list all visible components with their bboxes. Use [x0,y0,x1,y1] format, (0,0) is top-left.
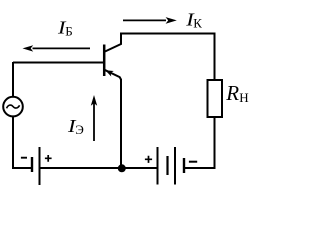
svg-text:Н: Н [239,90,248,105]
svg-text:К: К [193,16,202,31]
svg-text:Б: Б [65,23,72,38]
svg-text:R: R [225,81,239,105]
svg-text:Э: Э [75,122,84,137]
